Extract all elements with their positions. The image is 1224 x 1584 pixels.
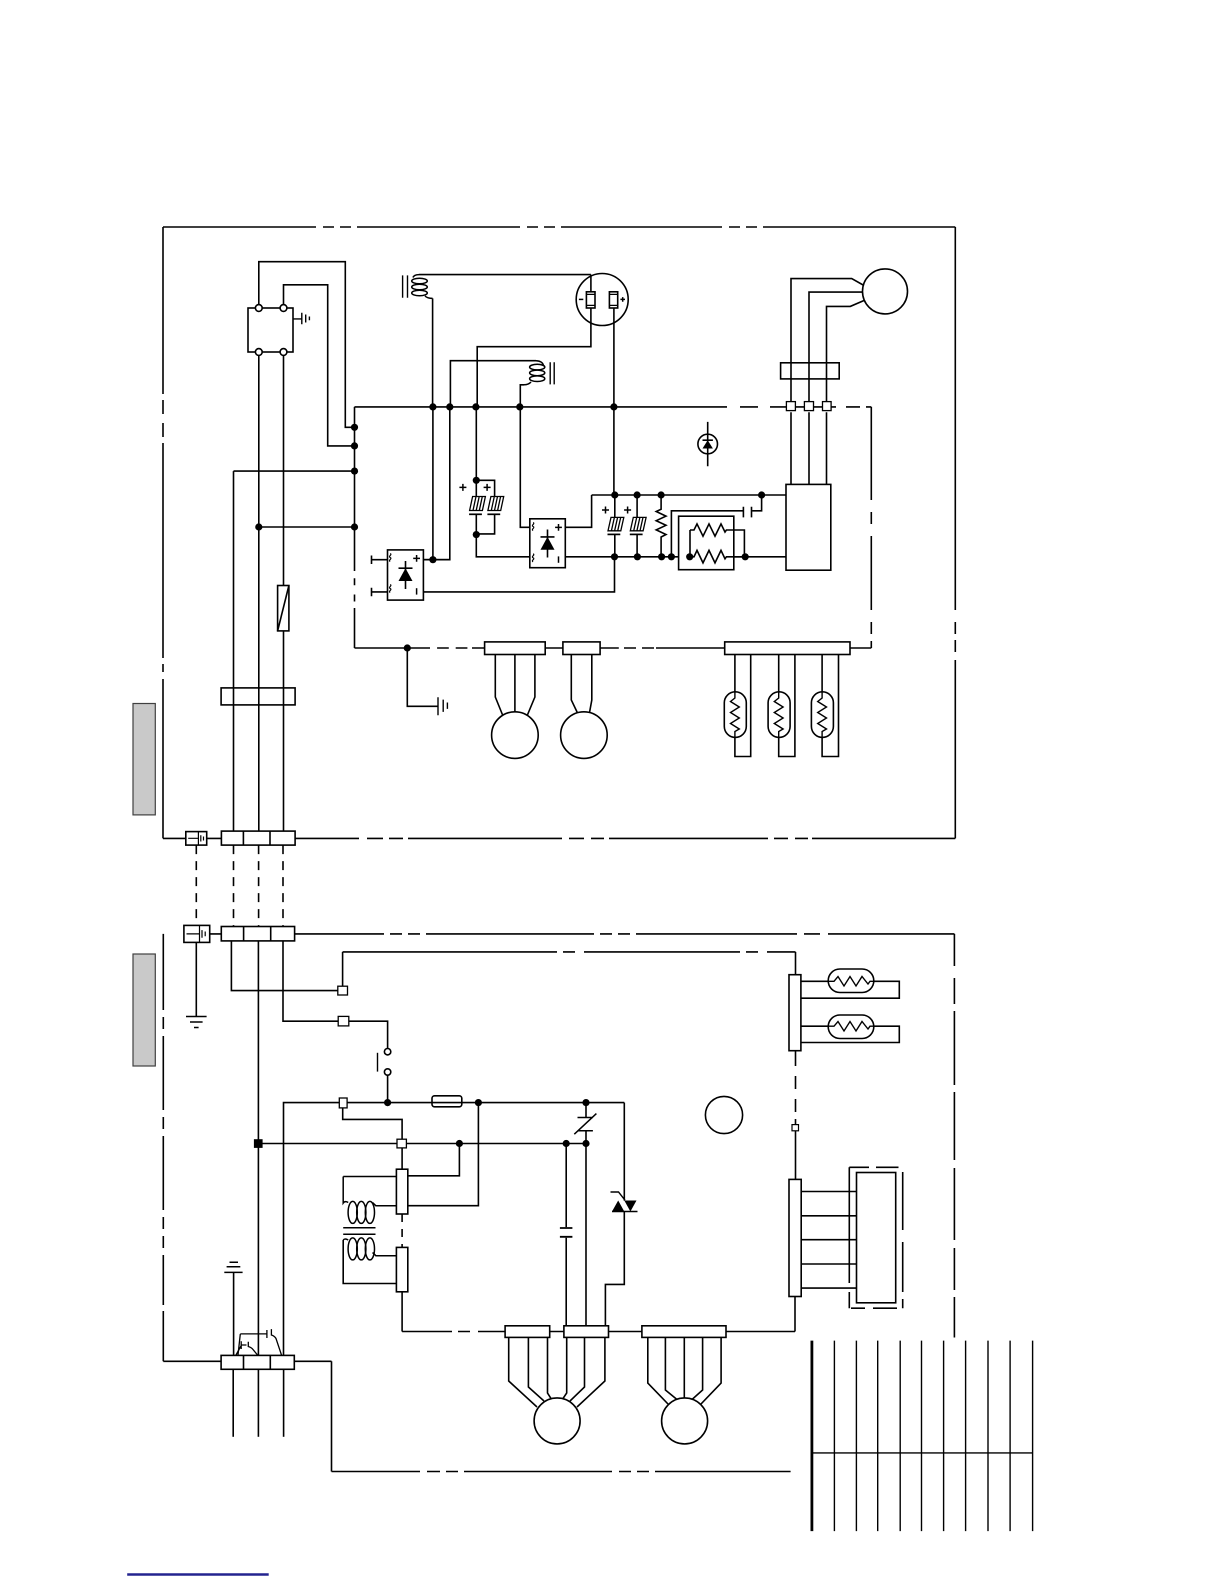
indoor thermistor TH5 [801, 1015, 899, 1043]
wire left branch x233.5 down to terminal block [234, 471, 355, 831]
junction dots R1 [658, 491, 666, 560]
wire SW1 to rail R1 [387, 1075, 389, 1102]
transformer secondary left wire [343, 1240, 396, 1284]
display unit dashed enclosure [849, 1167, 902, 1308]
junction dot x614 top bus [610, 403, 617, 410]
wire into minus brush [590, 275, 592, 292]
reactor L2 core lines [550, 362, 554, 384]
indoor fan motor FM3 leads [509, 1337, 605, 1407]
wire square4 to relay connector [401, 1148, 403, 1169]
switch S1 terminal bottom-right [280, 349, 287, 356]
wire switch S1 top-right to PCB edge node B [284, 285, 355, 446]
wire switch S1 top-left to PCB edge node A [259, 262, 355, 428]
indoor unit boundary left edge (chain line) [162, 934, 164, 1361]
earth terminal connector (outdoor) [186, 832, 207, 846]
indoor unit boundary top edge (chain line) [210, 933, 955, 935]
plus sign C1 [459, 484, 466, 491]
phase wire U [790, 363, 792, 485]
wire minus brush down and left to top bus [477, 308, 591, 407]
dashed link between transformer connectors [401, 1214, 403, 1247]
DC plus rail [592, 494, 786, 496]
gray label bar (indoor) [133, 954, 155, 1066]
junction dot node D [351, 523, 358, 530]
junction dot node C [351, 468, 358, 475]
indoor unit boundary bottom-left jog [163, 1361, 790, 1471]
louver motor FM4 [662, 1398, 708, 1444]
wire square3 bottom jog to square4 [343, 1108, 402, 1139]
resistor R3 (lower, in rail) [690, 550, 746, 563]
louver motor connector strip CNC [642, 1326, 726, 1338]
inverted earth symbol above TB3 [224, 1262, 242, 1272]
outdoor unit boundary left edge (chain line) [162, 227, 164, 838]
junction dot doubler top node [473, 477, 480, 484]
switch S1 terminal top-left [255, 305, 262, 312]
earth terminal connector (indoor) [184, 925, 210, 942]
terminal block TB2 (indoor interconnect) [221, 927, 294, 941]
display unit board [857, 1173, 896, 1303]
power terminal block TB3 (indoor mains) [221, 1355, 294, 1369]
DB2 tilde mark lower [532, 554, 533, 562]
switch S1 terminal bottom-left [255, 349, 262, 356]
switch S1 terminal top-right [280, 305, 287, 312]
electrolytic capacitor C2 (doubler) [476, 480, 503, 534]
outdoor unit boundary right edge (chain line) [954, 227, 956, 838]
indoor PCB bottom edge (chain with connector strips) [402, 1331, 795, 1333]
bridge rectifier DB1 [388, 550, 424, 600]
outdoor unit boundary bottom edge (chain line with terminal blocks) [163, 837, 955, 839]
ground wire from indoor earth terminal [195, 942, 197, 1016]
outdoor motor FM2 leads [571, 655, 592, 715]
fuse F2 [432, 1096, 462, 1107]
board connector square 1 [338, 986, 348, 995]
gray label bar (outdoor) [133, 704, 155, 815]
cable clamp strip (outdoor) [221, 688, 295, 705]
wire square2 to power switch SW1 [349, 1021, 388, 1048]
dash-dot link below thermistor connector [795, 1051, 797, 1125]
junction dot x450 top bus [446, 403, 453, 410]
interconnect dashed wire 3 [282, 845, 284, 926]
wire TB2-R to board connector square 2 [283, 941, 338, 1021]
junction dot on DB1 plus line [429, 556, 436, 563]
switch S1 body (outdoor 4-terminal switch) [248, 308, 293, 352]
transformer T1 secondary coil [343, 1238, 396, 1260]
earth symbol (indoor) [186, 1017, 207, 1028]
reactor L1 core lines [403, 275, 408, 297]
supply lead L [232, 1369, 234, 1437]
bridge rectifier DB2 [530, 519, 566, 568]
thermistor TH3 [811, 655, 838, 757]
board connector square 2 [338, 1016, 349, 1026]
outdoor fan motor connector strip CN2 [563, 642, 600, 655]
wire PCB bottom right corner up to display connector [794, 1297, 796, 1332]
junction dot rail R2 varistor [582, 1140, 589, 1147]
compressor motor CM [863, 269, 908, 314]
supply lead E [283, 1369, 285, 1437]
display unit connector CN5 [789, 1179, 801, 1296]
supply lead N [257, 1369, 259, 1437]
electrolytic capacitor C3 [608, 495, 624, 557]
DB1 tilde mark upper [389, 554, 390, 562]
terminal block TB1 (outdoor) [221, 831, 295, 845]
junction dot rail R1 transformer branch [475, 1099, 482, 1106]
DB1 minus output line to DC minus rail [423, 557, 614, 592]
board connector square W [823, 402, 832, 411]
indoor thermistor TH4 [801, 969, 899, 998]
indoor PCB top-left corner wire to connector square 1 [342, 952, 344, 986]
wire fuse F1 to terminal block [283, 631, 285, 831]
junction dot SW1/rail [384, 1099, 391, 1106]
PCB bottom bus line (outdoor) [355, 647, 872, 649]
wire TB2-L to board connector square 1 [231, 941, 337, 991]
brush block plus [609, 292, 617, 308]
louver motor FM4 leads [648, 1337, 721, 1404]
wire relay connector right bottom to rail R1 [408, 1103, 479, 1206]
chassis ground symbol (outdoor PCB) [438, 697, 447, 715]
reactor L1 coil [412, 275, 433, 299]
wire doubler bottom node to DB2 lower input [476, 535, 530, 557]
outdoor unit boundary top edge (chain line) [163, 226, 955, 228]
junction dot rail R1 varistor [582, 1099, 589, 1106]
fan motor connector strip CNA [505, 1326, 550, 1338]
DB1 tilde mark lower [389, 585, 390, 593]
fan motor connector strip CNB [564, 1326, 609, 1338]
indoor PCB top edge (chain) [343, 951, 796, 953]
DB1 plus mark [413, 555, 420, 562]
transformer secondary connector CN-T2 [396, 1247, 407, 1291]
DB1 minus mark [416, 588, 418, 594]
rail R1 continues to triac corner [462, 1102, 625, 1104]
wire L2 bottom lead down to rectifier DB2 [520, 385, 530, 528]
junction dot node B [351, 442, 358, 449]
interconnect dashed wire earth [195, 845, 197, 925]
DC minus rail [565, 556, 786, 558]
thermistor TH2 [768, 655, 795, 757]
reactor L2 coil [524, 361, 545, 385]
inverter power module IPM [786, 484, 831, 570]
junction dot node A [351, 424, 358, 431]
wire L2 top lead to node B branch [450, 361, 536, 407]
minus sign in motor circle [579, 298, 583, 300]
outdoor fan motor connector strip CN1 [485, 642, 546, 655]
buzzer circle BZ [705, 1096, 742, 1133]
interconnect dashed wire 2 [258, 845, 260, 926]
wire switch S1 bottom-right down to fuse F1 [283, 355, 285, 585]
snubber capacitor C5 [671, 495, 761, 557]
junction dot rail R2 capacitor [563, 1140, 570, 1147]
plus sign C2 [484, 484, 491, 491]
wire primary left lead [343, 1176, 396, 1178]
board connector square 3 [339, 1098, 347, 1108]
outdoor motor FM2 [561, 712, 608, 759]
DB1 plus output line [423, 559, 449, 561]
plus sign C3 [602, 507, 609, 514]
DB2 plus output to DC plus rail [565, 495, 591, 527]
compressor connector strip [781, 363, 840, 379]
junction dot ground node on bottom bus [404, 644, 411, 651]
junction dot x477 top bus [472, 403, 479, 410]
live rail R1 (indoor) [347, 1102, 432, 1104]
wire reactor L1 top to DC motor circle [419, 274, 591, 276]
resistor R2 (upper, in unit) [690, 524, 744, 557]
junction dot rail R2 relay branch [456, 1140, 463, 1147]
transformer T1 primary coil [343, 1177, 396, 1224]
board connector square 4 [397, 1139, 406, 1148]
DB2 minus mark [558, 556, 560, 562]
power switch SW1 contacts [378, 1049, 391, 1076]
junction dot doubler bottom node [473, 531, 480, 538]
plus sign in motor circle [620, 297, 625, 302]
junction dots C5 [668, 491, 765, 560]
phase wire W [826, 363, 828, 485]
junction dot on wire at y527 [255, 523, 262, 530]
wire CN-T2 down to PCB bottom edge corner [401, 1292, 403, 1332]
wire branch y527 to PCB left edge [259, 526, 355, 528]
LED diode in circle [698, 422, 718, 466]
fuse F1 (with diagonal) [278, 586, 289, 631]
PCB top bus line (outdoor) [355, 406, 872, 408]
display ribbon comb [812, 1341, 1033, 1532]
thermistor TH1 [724, 655, 750, 757]
junction dots C3 C4 on rails [611, 491, 641, 560]
faston jumper pair B [238, 1329, 282, 1355]
small board connector square 5 [792, 1125, 799, 1131]
compressor wire V [809, 292, 863, 363]
interconnect dashed wire 1 [233, 845, 235, 926]
wire TB2-N down through indoor unit [257, 941, 259, 1356]
indoor thermistor connector CN4 [789, 975, 801, 1051]
chassis ground at switch S1 [293, 313, 309, 325]
DB2 plus mark [555, 524, 562, 531]
PCB right edge (outdoor, chain) [870, 407, 872, 648]
electrolytic capacitor C4 [630, 495, 646, 557]
compressor wire W [827, 301, 865, 363]
DB1 input stub lower [372, 588, 388, 597]
transformer primary connector CN-T1 [396, 1169, 407, 1214]
black square junction on N wire [254, 1139, 263, 1148]
compressor wire U [791, 279, 864, 363]
indoor unit boundary right edge (chain line) [953, 934, 955, 1338]
DB2 tilde mark upper [532, 523, 533, 531]
wire rail R1 left of square3 to power terminal [284, 1103, 340, 1356]
wire plus brush down through bus to DC rail [613, 308, 615, 495]
junction dots resistor unit [686, 553, 749, 560]
wire relay connector right top to rail R2 [408, 1144, 460, 1176]
wire varistor node down to fan connector [585, 1144, 587, 1326]
footer blue rule [127, 1573, 269, 1576]
wire square5 to display connector [795, 1131, 797, 1180]
indoor fan motor FM3 [534, 1398, 580, 1444]
DB1 input stub upper [372, 556, 388, 565]
resistor R1 (bleeder, vertical) [656, 495, 666, 557]
brush block minus [586, 292, 595, 308]
junction dot L1/top-bus [429, 403, 436, 410]
capacitor C6 (fan motor) [560, 1144, 573, 1326]
varistor ZNR1 [574, 1103, 596, 1144]
wire reactor L1 bottom down to top bus [432, 298, 434, 407]
neutral rail R2 (indoor) [258, 1143, 586, 1145]
power resistor unit box [679, 516, 734, 570]
thermistor connector strip CN3 [725, 642, 850, 655]
wire x450 down to DB1 plus corner [423, 407, 449, 560]
DC brush motor circle (with - and + brushes) [576, 274, 628, 326]
outdoor fan motor FM1 [492, 712, 539, 759]
ground wire from bottom bus [407, 648, 438, 706]
display unit pin wires [801, 1192, 856, 1289]
wire switch S1 bottom-left down to terminal block [258, 355, 260, 831]
faston jumper pair A [236, 1341, 258, 1355]
transformer T1 core [343, 1228, 375, 1235]
PCB left edge bus (outdoor) [354, 407, 356, 648]
board connector square V [804, 402, 813, 411]
electrolytic capacitor C1 (doubler) [469, 407, 485, 535]
wire L1 branch down to rectifier DB1 plus line [432, 407, 434, 560]
junction dot x520 top bus [516, 403, 523, 410]
outdoor fan motor FM1 leads [495, 655, 535, 717]
plus sign C4 [624, 507, 631, 514]
triac Q1 [605, 1103, 637, 1326]
board connector square U [786, 402, 795, 411]
phase wire V [808, 363, 810, 485]
earth lead into TB3 [233, 1272, 235, 1355]
wire PCB top edge corner down to thermistor connector [795, 952, 797, 975]
